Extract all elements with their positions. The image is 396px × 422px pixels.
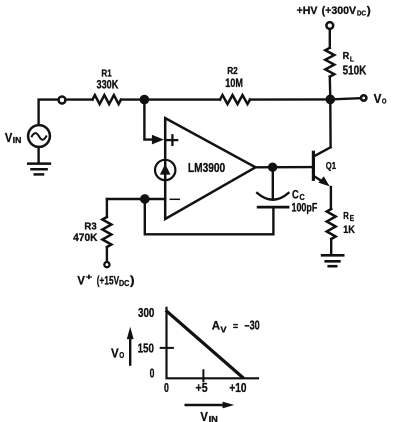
wire +HV to RL [329, 30, 331, 48]
svg-text:–30: –30 [245, 319, 260, 333]
wire op-amp output [256, 166, 313, 169]
svg-text:V: V [200, 409, 208, 422]
wire node B to Q1 collector [329, 99, 332, 147]
svg-text:(+15V: (+15V [97, 276, 120, 288]
label +5 [196, 381, 208, 395]
svg-text:R: R [343, 210, 349, 222]
svg-text:E: E [350, 214, 355, 223]
plus sign [168, 135, 178, 145]
resistor R1 [93, 95, 121, 104]
transistor Q1 [313, 147, 330, 186]
svg-text:(+300V: (+300V [322, 5, 357, 17]
capacitor CC [257, 193, 288, 207]
wire feedback bottom [145, 199, 274, 234]
node +HV terminal [326, 22, 333, 29]
wire RL to node B [329, 77, 332, 100]
svg-text:V: V [111, 346, 119, 361]
svg-text:Q1: Q1 [326, 160, 336, 172]
label +HV (+300VDC) [297, 5, 372, 18]
svg-text:150: 150 [138, 342, 154, 356]
svg-text:LM3900: LM3900 [188, 161, 225, 175]
label 0 x-axis [164, 381, 169, 395]
label R3 470K [73, 220, 97, 244]
node B junction [325, 95, 335, 105]
label RL 510K [343, 50, 367, 77]
wire terminal to R1 [65, 98, 92, 100]
svg-text:DC: DC [357, 9, 366, 18]
svg-text:DC: DC [119, 279, 129, 288]
label VIN graph [200, 409, 218, 422]
wire node A to plus input [144, 100, 152, 140]
label +10 [229, 381, 246, 395]
node V+ terminal [104, 262, 109, 267]
svg-text:A: A [212, 319, 221, 333]
resistor RL [325, 48, 334, 77]
label Q1 [326, 160, 336, 172]
svg-text:V: V [77, 276, 85, 288]
wire VIN to input terminal [39, 100, 59, 125]
svg-text:330K: 330K [97, 77, 119, 91]
svg-text:IN: IN [13, 136, 22, 145]
ground below RE [322, 255, 343, 266]
tick 150 [161, 347, 173, 349]
svg-text:470K: 470K [73, 232, 97, 244]
svg-text:100pF: 100pF [292, 202, 318, 214]
svg-text:=: = [233, 321, 238, 332]
label CC 100pF [292, 188, 318, 215]
wire R3 to V+ terminal [106, 247, 108, 261]
svg-text:0: 0 [164, 381, 169, 395]
svg-text:1K: 1K [343, 224, 355, 236]
svg-text:+HV: +HV [297, 5, 318, 17]
label VO [374, 91, 387, 106]
wire node A to R2 [144, 98, 220, 100]
graph transfer line [167, 311, 243, 377]
svg-text:0: 0 [150, 366, 155, 380]
svg-text:300: 300 [138, 306, 154, 320]
svg-text:R: R [343, 50, 350, 62]
op-amp U1 triangle [165, 118, 255, 219]
label RE 1K [343, 210, 355, 236]
wire node C down to R3 [106, 199, 108, 217]
graph axes [167, 308, 259, 379]
svg-text:R3: R3 [84, 220, 96, 232]
axis label VO with arrow [127, 327, 134, 365]
node D junction output [268, 163, 277, 172]
label 150 [138, 342, 154, 356]
svg-text:+10: +10 [229, 381, 246, 395]
axis label VIN with arrow [186, 402, 235, 409]
node VO terminal [361, 95, 366, 100]
label VIN [5, 131, 22, 145]
label R2 10M [225, 65, 243, 90]
label R1 330K [97, 67, 119, 91]
svg-text:V: V [220, 326, 227, 335]
svg-text:): ) [130, 276, 135, 288]
label VO graph [111, 346, 124, 361]
label 300 [138, 306, 154, 320]
svg-text:+5: +5 [196, 381, 208, 395]
wire minus input to node C [107, 198, 165, 200]
source VIN [28, 125, 50, 147]
wire R1 to node A [121, 98, 144, 100]
svg-text:IN: IN [209, 415, 218, 422]
svg-text:510K: 510K [343, 64, 367, 78]
svg-text:O: O [119, 351, 124, 360]
node input terminal [59, 97, 66, 104]
svg-text:O: O [382, 97, 387, 106]
svg-text:V: V [374, 91, 382, 106]
wire node B to VO terminal [330, 98, 359, 99]
label V+ (+15VDC) [77, 272, 134, 288]
ground below VIN [28, 147, 50, 174]
node A junction [140, 95, 150, 105]
label LM3900 [188, 161, 225, 175]
wire node D to capacitor [272, 167, 274, 199]
svg-text:+: + [86, 272, 93, 281]
node C junction [140, 194, 150, 204]
label AV = -30 [212, 319, 260, 335]
resistor R2 [220, 95, 250, 104]
resistor RE [327, 209, 336, 239]
svg-text:L: L [350, 54, 354, 63]
wire R2 to node B [250, 98, 330, 101]
wire Q1 emitter to RE [330, 187, 332, 209]
current source inside op-amp [155, 160, 175, 180]
svg-text:): ) [367, 5, 371, 17]
resistor R3 [102, 217, 111, 247]
label 0 y-axis [150, 366, 155, 380]
svg-text:10M: 10M [225, 76, 243, 90]
svg-text:C: C [300, 193, 305, 202]
arrow into plus input [152, 135, 164, 145]
wire RE to ground [330, 239, 332, 254]
minus sign [170, 198, 179, 200]
svg-text:C: C [292, 188, 299, 202]
tick +5 [202, 370, 204, 381]
